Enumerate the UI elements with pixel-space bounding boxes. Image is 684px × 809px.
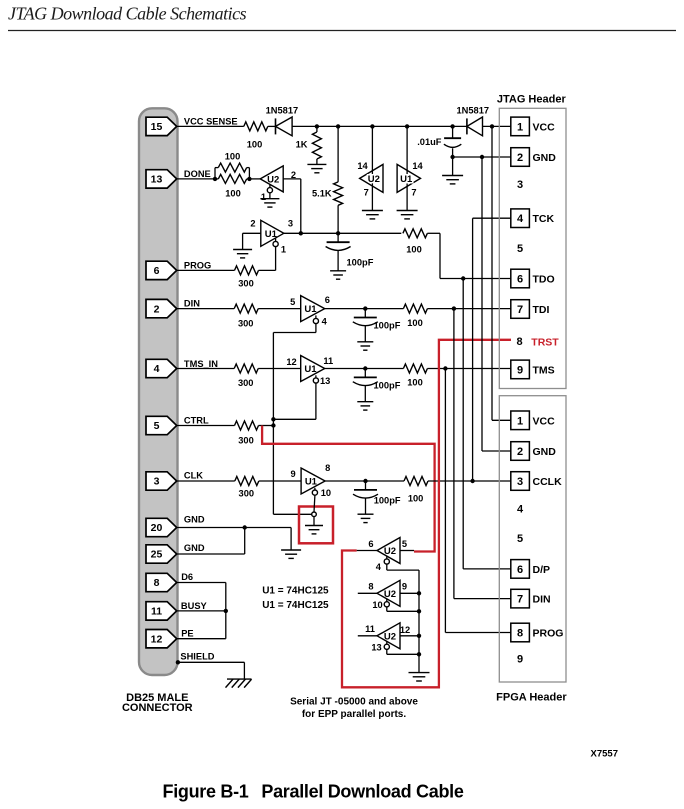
svg-text:13: 13 <box>371 642 381 652</box>
label 100 (CLK) <box>408 494 424 504</box>
junction bus (U2 gate4 input) <box>417 634 421 638</box>
svg-text:8: 8 <box>517 336 523 348</box>
junction TCK / CCLK bus <box>470 479 474 483</box>
svg-text:7: 7 <box>517 594 523 606</box>
svg-text:D6: D6 <box>181 572 193 582</box>
wire U2 gate4 input to bus <box>400 635 419 637</box>
DB25 pin 5 tag <box>146 416 177 434</box>
label 100 upper (DONE) <box>225 152 241 162</box>
wire enable bus vertical <box>273 333 311 515</box>
wire VCC to FPGA VCC bus <box>492 126 511 420</box>
pin 11 label (U2 gate4) <box>365 624 375 634</box>
wire enable to ground (U2 gate1) <box>269 193 271 199</box>
JTAG header outline <box>499 108 566 388</box>
junction 100pF (DIN) <box>363 306 367 310</box>
svg-text:8: 8 <box>325 463 330 473</box>
FPGA pin 2 box <box>511 442 530 461</box>
op-amp U2 gate3 (spare) <box>377 580 400 606</box>
svg-text:100pF: 100pF <box>374 495 401 505</box>
pin 3 label (U1 gate1) <box>288 218 293 228</box>
svg-text:5: 5 <box>517 533 523 545</box>
svg-text:3: 3 <box>517 179 523 191</box>
FPGA pin 8 label PROG <box>533 628 564 640</box>
capacitor 100pF (PROG node) <box>326 233 351 279</box>
signal label D6 <box>181 572 193 582</box>
svg-text:11: 11 <box>365 624 375 634</box>
svg-text:CLK: CLK <box>184 470 203 480</box>
svg-text:100pF: 100pF <box>374 381 401 391</box>
enable bubble U1 gate2 <box>313 315 318 323</box>
wire PROG from pin 6 <box>177 269 235 271</box>
JTAG pin 6 box <box>511 269 530 288</box>
wire to U2 buffer output <box>249 178 260 180</box>
wire SHIELD <box>178 662 245 679</box>
junction VCC bus <box>490 124 494 128</box>
svg-text:4: 4 <box>517 213 524 225</box>
svg-text:DIN: DIN <box>533 594 551 606</box>
JTAG pin 6 label TDO <box>533 274 555 286</box>
ground (GND net) <box>281 550 301 558</box>
svg-text:PROG: PROG <box>533 628 564 640</box>
label 1N5817 (right diode) <box>457 106 490 116</box>
svg-text:U1: U1 <box>304 364 317 375</box>
pin 14 label (U1 power) <box>412 161 423 171</box>
ground (.01uF) <box>442 176 463 184</box>
svg-text:100: 100 <box>225 189 241 199</box>
pin 1 label (U1 gate1) <box>281 244 286 254</box>
label 100pF (DIN) <box>374 321 401 331</box>
DB25 pin 25 tag <box>146 545 177 563</box>
wire PROG to enable <box>259 269 276 271</box>
ground (U2 gate1 enable) <box>260 199 279 207</box>
label 1N5817 (left diode) <box>266 106 299 116</box>
FPGA pin 3 label CCLK <box>533 476 563 488</box>
wire TDO to FPGA D/P bus <box>463 279 511 569</box>
FPGA pin 5 number <box>517 533 523 545</box>
DB25 pin 12 tag <box>146 630 177 648</box>
ground (1K pulldown) <box>307 164 326 172</box>
svg-text:3: 3 <box>154 476 160 488</box>
svg-text:7: 7 <box>411 187 416 197</box>
svg-text:13: 13 <box>320 376 330 386</box>
op-amp U2 gate1 (DONE buffer) <box>260 166 283 192</box>
junction parallel resistors left <box>213 177 217 181</box>
wire BUSY <box>177 610 226 612</box>
note U1 = 74HC125 (line 1) <box>262 586 329 597</box>
svg-text:U2: U2 <box>384 589 396 600</box>
svg-text:20: 20 <box>151 522 163 534</box>
resistor 100 (DIN) <box>403 304 427 313</box>
wire TMS buffer output <box>325 368 404 370</box>
JTAG pin 9 box <box>511 360 530 379</box>
junction U2 power <box>370 124 374 128</box>
resistor 300 (TMS) <box>234 364 258 373</box>
label .01uF <box>417 137 442 147</box>
svg-text:Parallel Download Cable: Parallel Download Cable <box>261 782 463 802</box>
enable bubble U2 gate2 <box>384 556 389 564</box>
capacitor 100pF (TMS) <box>353 369 378 411</box>
pin 7 label (U2 power) <box>364 187 369 197</box>
label 100pF (TMS) <box>374 381 401 391</box>
svg-text:2: 2 <box>517 446 523 458</box>
wire GND from pin 25 <box>177 528 245 555</box>
label 300 (TMS) <box>238 378 254 388</box>
svg-text:9: 9 <box>291 469 296 479</box>
wire VCC rail <box>292 125 467 127</box>
junction TMS / PROG bus <box>443 366 447 370</box>
JTAG pin 7 box <box>511 300 530 319</box>
pin 9 label (U1 gate3) <box>291 469 296 479</box>
junction U2 input / U1 output <box>299 231 303 235</box>
svg-text:25: 25 <box>151 549 163 561</box>
wire CTRL to enable bus <box>259 425 274 427</box>
resistor 1K pulldown <box>312 126 321 164</box>
svg-text:PROG: PROG <box>184 260 211 270</box>
svg-text:300: 300 <box>238 319 254 329</box>
junction BUSY tie <box>224 609 228 613</box>
JTAG pin 8 label TRST <box>531 337 559 349</box>
wire U2 gate3 input to bus <box>400 592 419 594</box>
svg-text:8: 8 <box>368 581 373 591</box>
JTAG pin 9 label TMS <box>533 364 555 376</box>
svg-text:1: 1 <box>517 121 523 133</box>
wire D6-BUSY-PE tie <box>225 583 227 639</box>
JTAG pin 2 box <box>511 148 530 167</box>
svg-text:JTAG Download Cable Schematics: JTAG Download Cable Schematics <box>8 4 247 24</box>
wire enable U2 gate4 to bus <box>387 649 419 654</box>
signal label GND (pin 20) <box>184 514 205 524</box>
wire TMS_IN from pin 4 <box>177 368 235 370</box>
resistor 100 upper (DONE) <box>215 163 249 179</box>
svg-text:5: 5 <box>154 420 160 432</box>
FPGA pin 9 number <box>517 654 523 666</box>
junction TDO / D-P bus <box>461 276 465 280</box>
svg-text:13: 13 <box>151 174 163 186</box>
svg-text:12: 12 <box>286 357 296 367</box>
svg-text:3: 3 <box>517 476 523 488</box>
svg-text:VCC SENSE: VCC SENSE <box>184 116 238 126</box>
signal label SHIELD <box>180 651 214 661</box>
enable bubble U2 gate4 <box>384 641 389 649</box>
label 300 (CTRL) <box>238 436 254 446</box>
svg-text:for EPP parallel ports.: for EPP parallel ports. <box>302 709 407 720</box>
svg-text:11: 11 <box>323 356 333 366</box>
svg-text:X7557: X7557 <box>591 749 618 760</box>
page header title <box>8 4 247 24</box>
enable bubble U1 gate3 <box>312 488 317 495</box>
wire enable U1 gate3 to circle <box>313 495 316 512</box>
label 5.1K <box>312 189 332 199</box>
wire enable U1 gate2 to bus <box>273 324 316 333</box>
svg-text:GND: GND <box>533 152 557 164</box>
diode D2 1N5817 <box>467 117 483 136</box>
signal label VCC SENSE <box>184 116 238 126</box>
wire spare-gate ground bus <box>418 570 420 673</box>
capacitor .01uF <box>444 126 461 157</box>
resistor 100 lower (DONE) <box>215 174 249 183</box>
svg-text:FPGA Header: FPGA Header <box>496 691 567 703</box>
junction 5.1K pullup <box>336 124 340 128</box>
label 300 (CLK) <box>239 489 255 499</box>
label 100 (DIN) <box>407 318 423 328</box>
svg-text:GND: GND <box>184 514 205 524</box>
FPGA pin 1 box <box>511 411 530 430</box>
wire GND from pin 20 <box>177 527 245 529</box>
wire DIN buffer output <box>325 308 404 310</box>
op-amp U1 gate3 (CLK buffer) <box>301 468 325 494</box>
svg-text:5.1K: 5.1K <box>312 189 332 199</box>
svg-text:300: 300 <box>238 436 254 446</box>
capacitor 100pF (DIN) <box>353 309 378 351</box>
label 100pF (CLK) <box>374 495 401 505</box>
junction bus (U2 gate3 input) <box>417 591 421 595</box>
op-amp U1 gate2 (DIN buffer) <box>301 296 325 322</box>
resistor 100 (VCC sense) <box>244 122 268 131</box>
svg-text:CTRL: CTRL <box>184 416 209 426</box>
signal label PE <box>181 628 193 638</box>
svg-text:14: 14 <box>357 161 368 171</box>
DB25 pin 2 tag <box>146 299 177 317</box>
header rule <box>8 30 676 32</box>
svg-text:U1 = 74HC125: U1 = 74HC125 <box>262 586 329 597</box>
svg-text:10: 10 <box>321 488 331 498</box>
svg-text:9: 9 <box>517 654 523 666</box>
svg-text:6: 6 <box>154 265 160 277</box>
svg-text:100pF: 100pF <box>347 258 374 268</box>
svg-text:300: 300 <box>238 378 254 388</box>
junction GND bus <box>480 155 484 159</box>
wire U2 gate2 input <box>400 550 414 552</box>
JTAG pin 2 label GND <box>533 152 557 164</box>
resistor 300 (PROG) <box>235 266 259 275</box>
op-amp U2 gate2 (spare, TRST driver) <box>377 538 400 564</box>
op-amp U1 gate1 (PROG buffer) <box>261 220 284 246</box>
svg-text:100: 100 <box>407 378 423 388</box>
pin 1 label (U2 gate1) <box>261 192 266 202</box>
svg-text:TDO: TDO <box>533 274 555 286</box>
svg-text:TCK: TCK <box>533 213 555 225</box>
wire U2 gate4 output stub <box>358 635 377 637</box>
label 300 (DIN) <box>238 319 254 329</box>
svg-text:7: 7 <box>364 187 369 197</box>
svg-text:1N5817: 1N5817 <box>457 106 490 116</box>
pin 6 label (U1 gate2) <box>325 295 330 305</box>
pin 2 label (U1 gate1) <box>250 218 255 228</box>
wire U1 gate1 input <box>243 233 261 249</box>
pin 4 label (U1 gate2) <box>322 316 328 326</box>
pin 9 label (U2 gate3) <box>402 581 407 591</box>
svg-text:DONE: DONE <box>184 169 211 179</box>
wire U2 gate3 output stub <box>358 592 377 594</box>
wire to U1 gate3 <box>259 480 301 482</box>
svg-text:9: 9 <box>517 364 523 376</box>
enable bubble U1 gate4 <box>313 375 318 383</box>
svg-text:Serial JT -05000 and above: Serial JT -05000 and above <box>290 696 418 707</box>
junction 1K pulldown <box>315 124 319 128</box>
wire circle to ground <box>313 517 315 526</box>
pin 11 label (U1 gate4) <box>323 356 333 366</box>
FPGA pin 6 label D/P <box>533 564 551 576</box>
svg-text:GND: GND <box>533 446 557 458</box>
svg-text:100: 100 <box>407 318 423 328</box>
svg-text:U2: U2 <box>384 631 396 642</box>
FPGA pin 4 number <box>517 504 524 516</box>
red wire TRST path <box>342 340 511 688</box>
FPGA pin 7 box <box>511 589 530 608</box>
wire DIN from pin 2 <box>177 308 235 310</box>
svg-text:TDI: TDI <box>533 304 550 316</box>
enable bubble U1 gate1 <box>273 238 278 246</box>
svg-text:6: 6 <box>368 539 373 549</box>
JTAG pin 7 label TDI <box>533 304 550 316</box>
ground (U1 gate1 input) <box>233 250 252 258</box>
pin 2 label (U2 gate1) <box>291 170 296 180</box>
junction bus (U2 gate3 enable) <box>417 609 421 613</box>
figure caption <box>163 782 464 802</box>
wire PE <box>177 638 226 640</box>
svg-text:U2: U2 <box>368 174 380 185</box>
wire GND to ground symbol <box>245 528 291 551</box>
FPGA pin 6 box <box>511 560 530 579</box>
label 300 (PROG) <box>238 279 254 289</box>
svg-text:7: 7 <box>517 304 523 316</box>
red wire CTRL to U2 spare buffer <box>262 426 435 552</box>
svg-text:VCC: VCC <box>533 121 556 133</box>
signal label PROG <box>184 260 211 270</box>
svg-text:BUSY: BUSY <box>181 601 208 611</box>
signal label CTRL <box>184 416 209 426</box>
enable bubble U2 gate1 <box>267 184 272 192</box>
DB25 pin 4 tag <box>146 359 177 377</box>
svg-text:300: 300 <box>239 489 255 499</box>
svg-text:PE: PE <box>181 628 193 638</box>
svg-text:JTAG Header: JTAG Header <box>497 93 567 105</box>
svg-text:9: 9 <box>402 581 407 591</box>
pin 5 label (U1 gate2) <box>290 297 295 307</box>
svg-text:VCC: VCC <box>533 415 556 427</box>
ground (CLK enable mod) <box>305 526 323 534</box>
DB25 pin 3 tag <box>146 472 177 490</box>
resistor 300 (DIN) <box>234 304 258 313</box>
junction U1 power <box>405 124 409 128</box>
wire .01uF ground stem <box>452 157 454 176</box>
wire CLK to FPGA pin 3 CCLK <box>428 480 511 482</box>
svg-text:300: 300 <box>238 279 254 289</box>
pin 10 label (U2 gate3) <box>372 600 382 610</box>
signal label GND (pin 25) <box>184 543 205 553</box>
svg-text:100: 100 <box>408 494 424 504</box>
pin 13 label (U2 gate4) <box>371 642 381 652</box>
svg-text:1: 1 <box>517 415 523 427</box>
svg-text:5: 5 <box>290 297 295 307</box>
junction .01uF <box>450 124 454 128</box>
wire TCK to CCLK bus <box>473 218 511 481</box>
wire U1 gate1 output <box>284 232 402 234</box>
wire enable to PROG line <box>275 247 277 271</box>
wire U1 power <box>406 126 408 210</box>
DB25 pin 20 tag <box>146 518 177 536</box>
svg-text:TMS_IN: TMS_IN <box>184 359 218 369</box>
op-amp U1 gate4 (TMS buffer) <box>301 356 325 382</box>
pin 5 label (U2 gate2) <box>402 539 407 549</box>
IC power symbol U2 <box>360 164 383 192</box>
DB25 pin 6 tag <box>146 261 177 279</box>
svg-text:.01uF: .01uF <box>417 137 442 147</box>
drawing number X7557 <box>591 749 618 760</box>
svg-text:U1 = 74HC125: U1 = 74HC125 <box>262 600 329 611</box>
red highlight box (enable ground mod) <box>299 507 333 544</box>
svg-text:4: 4 <box>322 316 328 326</box>
svg-text:6: 6 <box>325 295 330 305</box>
pin 8 label (U2 gate3) <box>368 581 373 591</box>
signal label DONE <box>184 169 211 179</box>
svg-text:TMS: TMS <box>533 364 555 376</box>
svg-text:15: 15 <box>151 121 163 133</box>
svg-text:SHIELD: SHIELD <box>180 651 214 661</box>
JTAG header label <box>497 93 567 105</box>
signal label CLK <box>184 470 203 480</box>
wire enable U1 gate4 to bus <box>273 383 316 419</box>
JTAG pin 4 label TCK <box>533 213 555 225</box>
DB25 pin 13 tag <box>146 170 177 188</box>
svg-text:4: 4 <box>376 562 382 572</box>
signal label BUSY <box>181 601 208 611</box>
svg-text:U2: U2 <box>384 546 396 557</box>
wire to U1 gate2 <box>258 308 301 310</box>
junction .01uF to GND row <box>450 155 454 159</box>
label 1K <box>296 140 308 150</box>
svg-text:D/P: D/P <box>533 564 551 576</box>
svg-text:GND: GND <box>184 543 205 553</box>
svg-text:2: 2 <box>250 218 255 228</box>
svg-text:4: 4 <box>517 504 524 516</box>
pin 13 label (U1 gate4) <box>320 376 330 386</box>
junction enable bus (TMS) <box>271 417 275 421</box>
note serial JT line 1 <box>290 696 418 707</box>
pin 6 label (U2 gate2) <box>368 539 373 549</box>
svg-text:1: 1 <box>261 192 266 202</box>
wire net A step to TDO row <box>427 233 510 278</box>
svg-text:6: 6 <box>517 274 523 286</box>
svg-text:3: 3 <box>288 218 293 228</box>
JTAG pin 1 label VCC <box>533 121 556 133</box>
svg-text:U1: U1 <box>305 477 318 488</box>
svg-text:DIN: DIN <box>184 299 200 309</box>
signal label DIN <box>184 299 200 309</box>
FPGA header label <box>496 691 567 703</box>
label 100 (to TDO) <box>406 245 422 255</box>
pin 8 label (U1 gate3) <box>325 463 330 473</box>
JTAG pin 5 number <box>517 243 523 255</box>
junction GND pins <box>243 525 247 529</box>
svg-text:100: 100 <box>225 152 241 162</box>
wire U2 gate2 output <box>357 550 377 552</box>
svg-text:5: 5 <box>402 539 407 549</box>
resistor 100 (TMS) <box>403 364 427 373</box>
resistor 300 (CLK) <box>235 477 259 486</box>
wire CTRL from pin 5 <box>177 425 235 427</box>
wire VCC SENSE from pin 15 <box>177 125 244 127</box>
ground (spare gates) <box>409 673 430 681</box>
resistor 100 (to TDO) <box>403 229 427 238</box>
wire U2 power <box>371 126 373 210</box>
DB25 connector body <box>139 108 178 675</box>
svg-text:100: 100 <box>406 245 422 255</box>
chassis ground (SHIELD) <box>226 679 252 688</box>
JTAG pin 4 box <box>511 209 530 228</box>
junction parallel resistors right <box>247 177 251 181</box>
label 100 lower (DONE) <box>225 189 241 199</box>
